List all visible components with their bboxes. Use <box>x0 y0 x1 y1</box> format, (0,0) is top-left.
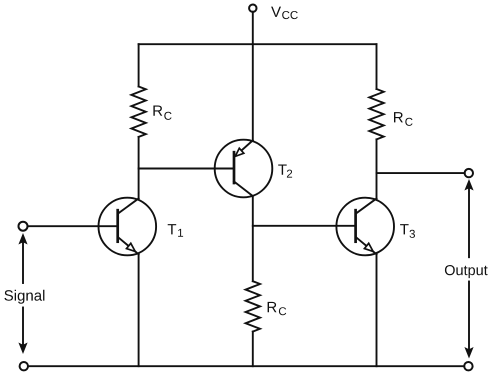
wire: bottom rail <box>28 365 464 367</box>
label T2 <box>278 165 292 178</box>
label T1 <box>168 224 183 237</box>
wire: T2 collector node to T3 base <box>253 225 356 227</box>
transistor T1 <box>99 198 157 256</box>
resistor RC2 (middle) <box>246 281 260 331</box>
node: signal input terminal (top) <box>19 222 28 231</box>
transistor T3 <box>336 198 394 256</box>
label T3 <box>400 224 415 238</box>
wire: T3 emitter stem <box>376 254 378 366</box>
transistor T2 <box>215 140 273 198</box>
wire: Vcc stem <box>252 12 254 141</box>
label RC1 value <box>153 106 171 120</box>
node: output terminal (bottom) <box>464 362 472 370</box>
wire: right rail top segment <box>376 44 378 89</box>
wire: left rail top segment <box>138 44 140 86</box>
wire: left rail to T1 collector <box>138 137 140 199</box>
label RC3 value <box>394 112 413 126</box>
label Output <box>445 265 488 278</box>
output range arrow (down) <box>464 282 473 359</box>
wire: T1 collector node to T2 base <box>139 168 234 170</box>
label RC2 value <box>268 302 287 315</box>
wire: middle resistor to bottom rail <box>252 332 254 367</box>
label Signal <box>4 290 44 304</box>
wire: right rail to T3 collector <box>376 139 378 198</box>
Vcc terminal <box>249 5 256 12</box>
node: signal terminal (bottom) <box>20 362 28 370</box>
resistor RC1 (left) <box>131 87 145 137</box>
wire: output tap to top-right terminal <box>377 172 465 174</box>
signal range arrow (up) <box>18 233 27 283</box>
wire: signal input lead <box>28 225 118 227</box>
node: output terminal (top) <box>465 169 473 177</box>
output range arrow (up) <box>464 179 473 257</box>
wire: T2 collector stem <box>252 196 254 281</box>
wire: T1 emitter stem <box>138 254 140 366</box>
signal range arrow (down) <box>18 308 27 355</box>
wire: top supply rail <box>139 43 377 45</box>
resistor RC3 (right) <box>369 89 383 139</box>
label Vcc <box>271 7 298 20</box>
